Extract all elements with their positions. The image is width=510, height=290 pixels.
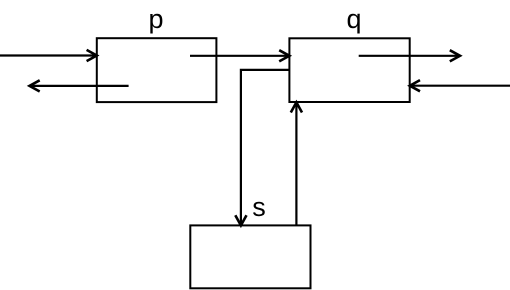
svg-text:q: q: [346, 4, 361, 34]
svg-text:p: p: [148, 4, 163, 34]
svg-text:s: s: [252, 192, 266, 222]
